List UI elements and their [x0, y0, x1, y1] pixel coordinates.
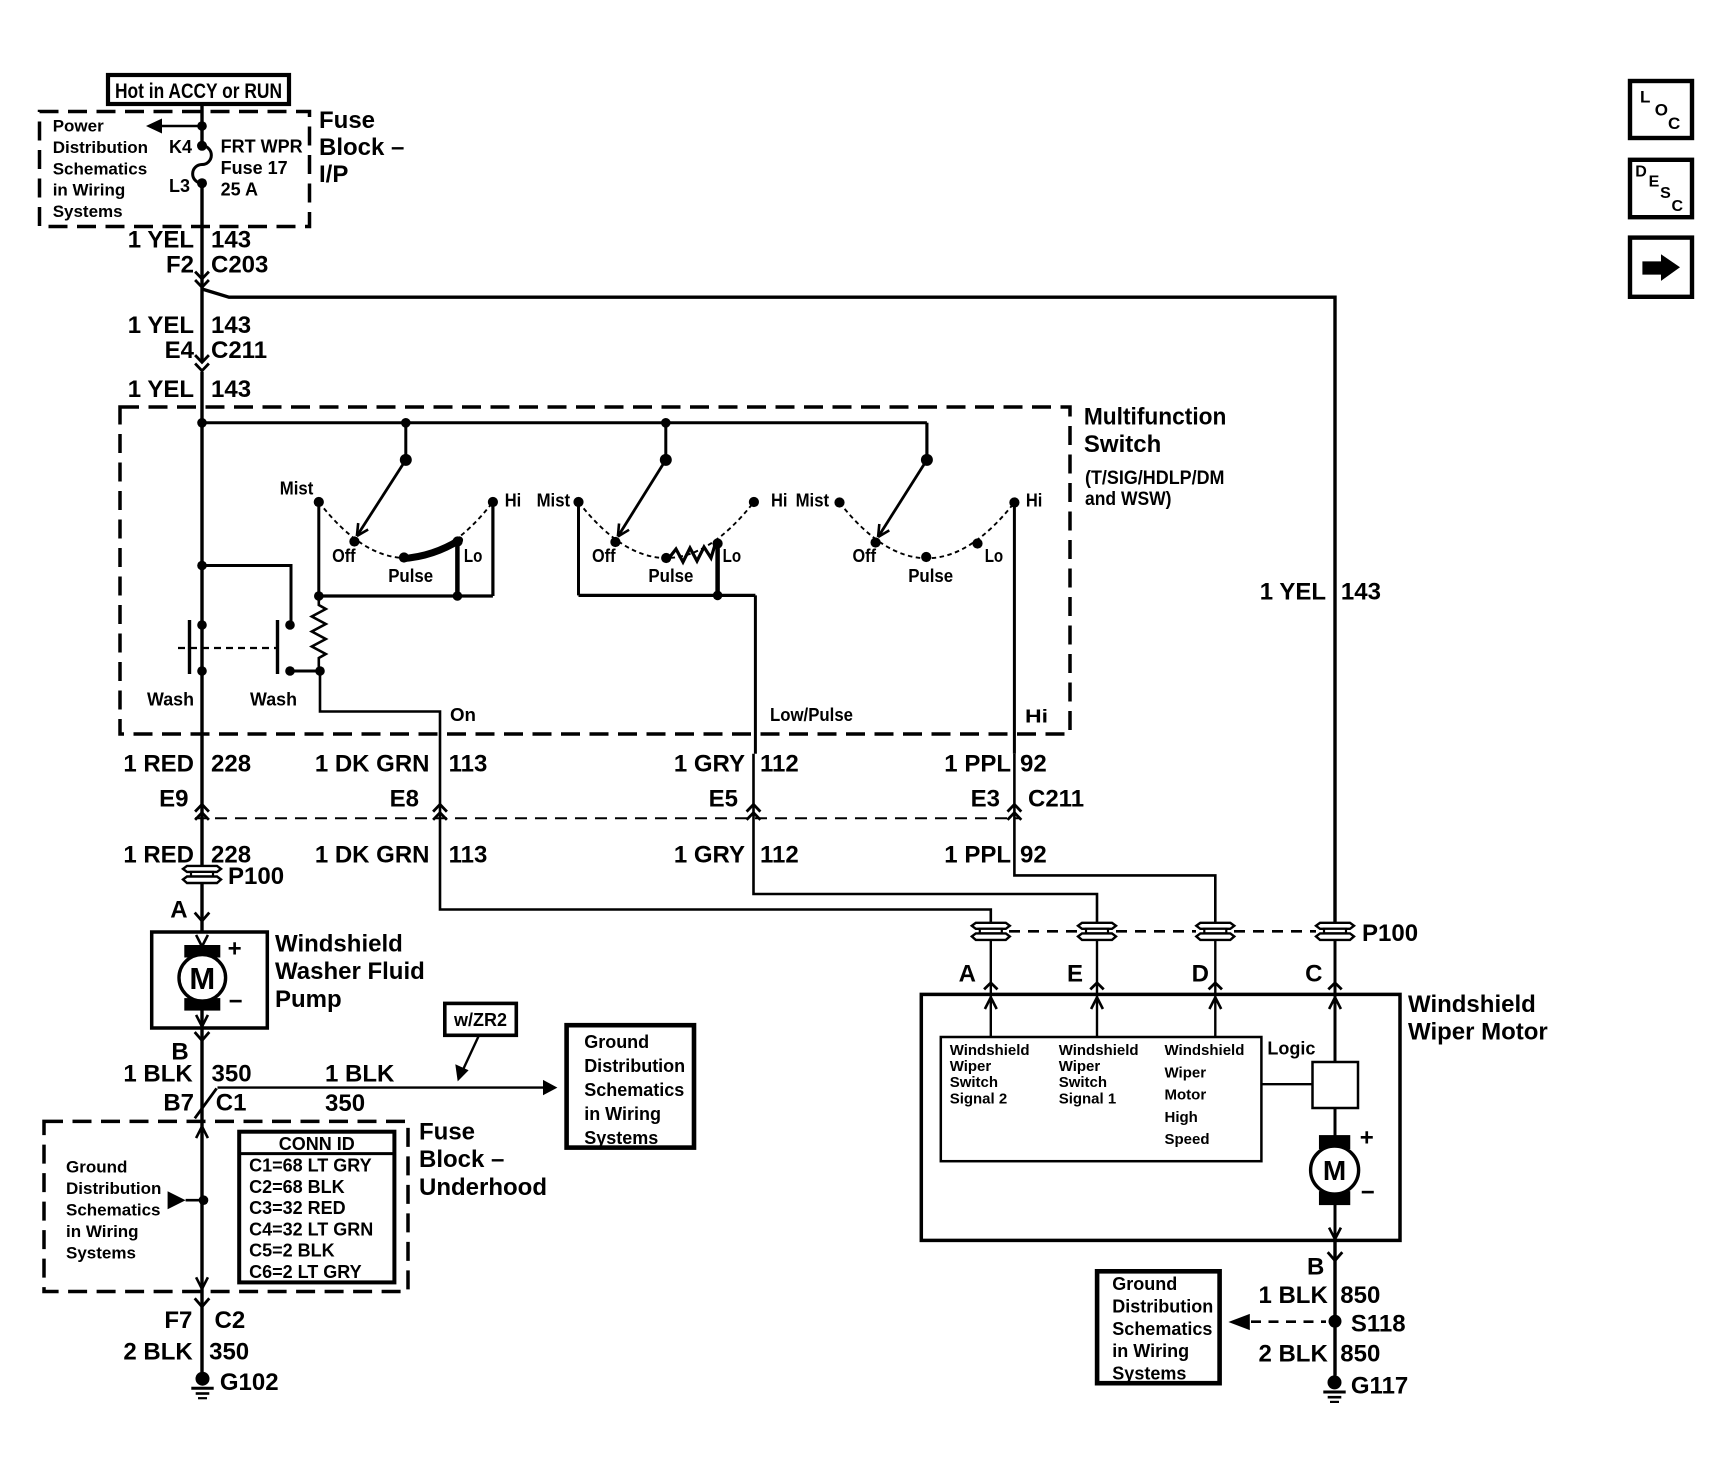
svg-text:E: E: [1067, 961, 1083, 988]
svg-text:350: 350: [325, 1090, 365, 1117]
svg-text:C211: C211: [1028, 786, 1084, 813]
svg-text:Power: Power: [53, 117, 104, 136]
icon box LOC: [1630, 81, 1692, 138]
svg-text:850: 850: [1340, 1282, 1380, 1309]
svg-text:P100: P100: [1362, 920, 1418, 947]
svg-text:−: −: [229, 988, 243, 1015]
wire: motor to box bottom with arrow: [1334, 1202, 1337, 1240]
svg-text:Switch: Switch: [1084, 431, 1161, 458]
svg-text:Switch: Switch: [1059, 1074, 1107, 1091]
svg-text:C: C: [1305, 961, 1322, 988]
connector chevron F7/C2: [195, 1298, 210, 1306]
svg-text:143: 143: [211, 376, 251, 403]
svg-text:in Wiring: in Wiring: [584, 1104, 661, 1124]
wash switch linkage dashed: [178, 647, 278, 649]
power label box: Hot in ACCY or RUN: [108, 75, 289, 104]
svg-text:Pulse: Pulse: [648, 566, 693, 586]
svg-text:1 BLK: 1 BLK: [123, 1060, 193, 1087]
svg-text:Ground: Ground: [584, 1032, 649, 1052]
svg-text:Logic: Logic: [1267, 1039, 1315, 1059]
wire: switch 1 common bus: [319, 594, 493, 597]
ground G102 symbol: [196, 1372, 210, 1386]
svg-text:113: 113: [449, 842, 488, 869]
svg-text:Systems: Systems: [66, 1244, 136, 1263]
svg-text:Fuse 17: Fuse 17: [221, 158, 288, 178]
svg-text:Distribution: Distribution: [1112, 1296, 1213, 1316]
svg-text:Schematics: Schematics: [53, 159, 148, 178]
svg-text:Washer Fluid: Washer Fluid: [275, 958, 425, 985]
svg-text:O: O: [1655, 101, 1668, 120]
svg-text:Lo: Lo: [464, 546, 483, 566]
wire: C into motor box: [1334, 940, 1337, 994]
svg-text:Lo: Lo: [723, 546, 742, 566]
wire: D into motor box: [1214, 940, 1216, 994]
connector P100 row dashed links: [1009, 930, 1078, 933]
svg-text:E: E: [1649, 173, 1660, 190]
svg-text:B: B: [1307, 1254, 1324, 1281]
svg-text:Systems: Systems: [584, 1128, 658, 1148]
windshield washer fluid pump box: [152, 932, 268, 1028]
svg-text:143: 143: [211, 312, 251, 339]
svg-text:E3: E3: [971, 786, 1000, 813]
svg-text:(T/SIG/HDLP/DM: (T/SIG/HDLP/DM: [1085, 468, 1225, 489]
svg-text:+: +: [1360, 1124, 1374, 1151]
svg-text:92: 92: [1020, 842, 1047, 869]
wire: Mist leg switch 2: [577, 502, 580, 595]
svg-text:and WSW): and WSW): [1085, 489, 1172, 510]
svg-text:Block –: Block –: [419, 1146, 504, 1173]
svg-text:C211: C211: [211, 337, 267, 364]
wiper motor symbol: [1319, 1135, 1350, 1149]
svg-text:Mist: Mist: [796, 491, 830, 511]
arrow bottom inside underhood box: [196, 1277, 202, 1289]
svg-text:Fuse: Fuse: [419, 1119, 475, 1146]
svg-text:Wash: Wash: [147, 690, 194, 710]
resistor (pulse delay): [312, 596, 326, 671]
svg-text:1 RED: 1 RED: [123, 842, 194, 869]
connector chevron B pump: [195, 1032, 210, 1040]
multifunction switch dashed box: [120, 407, 1070, 734]
svg-text:S118: S118: [1351, 1310, 1406, 1337]
svg-text:Windshield: Windshield: [1408, 991, 1536, 1018]
svg-text:B7: B7: [163, 1090, 194, 1117]
svg-text:Distribution: Distribution: [53, 138, 148, 157]
svg-text:Signal 2: Signal 2: [950, 1090, 1008, 1107]
svg-text:Hi: Hi: [771, 491, 788, 511]
svg-text:1 YEL: 1 YEL: [1260, 579, 1326, 606]
thick pulse arc switch 1: [403, 540, 460, 559]
connector chevron pin C: [1328, 983, 1341, 990]
svg-text:Windshield: Windshield: [1165, 1042, 1245, 1059]
connector chevron pin A: [984, 983, 997, 990]
svg-text:Off: Off: [853, 546, 877, 566]
svg-text:E8: E8: [390, 786, 419, 813]
svg-text:E9: E9: [159, 786, 188, 813]
wire+arrow C inside: [1334, 996, 1337, 1062]
svg-text:High: High: [1165, 1109, 1198, 1126]
svg-text:S: S: [1660, 185, 1671, 202]
svg-text:1 BLK: 1 BLK: [1258, 1282, 1328, 1309]
svg-text:Fuse: Fuse: [319, 107, 375, 134]
wire+arrow D inside: [1214, 996, 1216, 1037]
fuse block I/P dashed box: [40, 112, 310, 227]
wire: Mist leg switch 1: [317, 502, 320, 596]
svg-text:Systems: Systems: [1112, 1364, 1186, 1384]
svg-text:C: C: [1668, 114, 1680, 133]
wire: branch to right main bus: [202, 289, 1335, 923]
svg-text:Wash: Wash: [250, 690, 297, 710]
svg-text:1 YEL: 1 YEL: [128, 312, 194, 339]
connector C203 chevrons: [195, 272, 209, 279]
connector C1 slash: [195, 1088, 217, 1118]
dashed arrow to S118: [1228, 1314, 1249, 1330]
wire: wash lower link to resistor: [290, 670, 320, 673]
svg-text:C1=68 LT GRY: C1=68 LT GRY: [249, 1156, 372, 1176]
conn id table: [239, 1132, 394, 1283]
svg-text:CONN ID: CONN ID: [279, 1134, 355, 1154]
wash switch contact bars: [188, 620, 191, 674]
svg-text:D: D: [1192, 961, 1209, 988]
connector chevron pin E: [1090, 983, 1103, 990]
wire+arrow E inside: [1096, 996, 1098, 1037]
svg-text:Mist: Mist: [280, 478, 314, 498]
svg-text:1 GRY: 1 GRY: [674, 842, 745, 869]
svg-text:L3: L3: [169, 176, 190, 196]
svg-text:Pump: Pump: [275, 986, 342, 1013]
washer pump motor symbol: [184, 945, 220, 958]
wire: wash upper link: [202, 566, 291, 626]
svg-text:Distribution: Distribution: [584, 1056, 685, 1076]
svg-text:Switch: Switch: [950, 1074, 998, 1091]
svg-text:C5=2 BLK: C5=2 BLK: [249, 1241, 335, 1261]
logic box: [1313, 1062, 1359, 1108]
svg-text:C203: C203: [211, 252, 268, 279]
svg-text:in Wiring: in Wiring: [66, 1222, 139, 1241]
icon box arrow: [1630, 238, 1692, 297]
svg-text:Block –: Block –: [319, 134, 404, 161]
svg-text:Off: Off: [332, 546, 356, 566]
connector C211 boundary dashed line: [195, 817, 1020, 819]
svg-text:D: D: [1635, 164, 1647, 181]
svg-text:Schematics: Schematics: [584, 1080, 684, 1100]
svg-text:1 GRY: 1 GRY: [674, 751, 745, 778]
wire: wiper ground lead: [1333, 1240, 1336, 1375]
svg-text:1 PPL: 1 PPL: [944, 842, 1011, 869]
svg-text:Hot in ACCY or RUN: Hot in ACCY or RUN: [115, 80, 282, 103]
svg-text:Windshield: Windshield: [275, 931, 403, 958]
svg-text:Speed: Speed: [1165, 1131, 1210, 1148]
wire: switch 2 common bus: [579, 594, 756, 597]
ground G117 symbol: [1328, 1375, 1342, 1389]
fuse FRT WPR Fuse 17 25A symbol: [197, 141, 207, 151]
wire: logic to motor: [1334, 1108, 1337, 1137]
svg-text:1 DK GRN: 1 DK GRN: [315, 751, 430, 778]
wire: Hi output (PPL): [1013, 503, 1016, 754]
svg-text:F7: F7: [164, 1307, 192, 1334]
connector E9 chevrons: [195, 804, 209, 811]
wire+arrow A inside: [990, 996, 992, 1037]
svg-text:113: 113: [449, 751, 488, 778]
svg-text:92: 92: [1020, 751, 1047, 778]
wire: main below C203 to C211: [200, 287, 203, 362]
wire: main feed from Hot box down to C203: [200, 104, 203, 146]
svg-text:Wiper: Wiper: [1165, 1064, 1207, 1081]
arrow from note to wire: [168, 1191, 186, 1209]
svg-text:Pulse: Pulse: [388, 566, 433, 586]
svg-text:143: 143: [1341, 579, 1381, 606]
wiper switch signals box: [941, 1037, 1262, 1161]
svg-text:P100: P100: [228, 863, 284, 890]
svg-text:Off: Off: [592, 546, 616, 566]
svg-text:+: +: [228, 936, 242, 963]
svg-text:C2: C2: [215, 1307, 246, 1334]
switch wiper 3 (Mist/Off/Pulse/Lo/Hi): [925, 423, 928, 460]
svg-text:1 YEL: 1 YEL: [128, 376, 194, 403]
wire: switch 3 stem from bus corner: [925, 423, 928, 460]
svg-text:Wiper: Wiper: [950, 1058, 992, 1075]
connector E8 chevrons: [433, 804, 447, 811]
svg-text:A: A: [959, 961, 976, 988]
connector E5 chevrons: [747, 804, 761, 811]
wire: Low/Pulse output (GRY): [754, 595, 757, 753]
svg-text:Wiper: Wiper: [1059, 1058, 1101, 1075]
svg-text:Windshield: Windshield: [950, 1042, 1030, 1059]
svg-text:Pulse: Pulse: [908, 566, 953, 586]
svg-text:G102: G102: [220, 1369, 279, 1396]
svg-text:2 BLK: 2 BLK: [1258, 1340, 1328, 1367]
svg-text:in Wiring: in Wiring: [53, 181, 126, 200]
svg-text:350: 350: [209, 1339, 249, 1366]
wire: Hi leg switch 1: [491, 502, 494, 596]
svg-text:w/ZR2: w/ZR2: [453, 1010, 507, 1030]
svg-text:Lo: Lo: [985, 546, 1004, 566]
svg-text:K4: K4: [169, 137, 192, 157]
svg-text:C1: C1: [216, 1090, 247, 1117]
svg-text:Windshield: Windshield: [1059, 1042, 1139, 1059]
svg-text:C: C: [1672, 198, 1684, 215]
zigzag resistor switch 2: [670, 544, 716, 563]
svg-text:Systems: Systems: [53, 202, 123, 221]
svg-text:L: L: [1640, 87, 1650, 106]
arrow into pump: [196, 935, 202, 947]
wire: E into motor box: [1096, 940, 1098, 994]
windshield wiper motor box: [921, 994, 1400, 1240]
wire: A into motor box: [990, 940, 992, 994]
wire: signals box to logic box: [1261, 1083, 1312, 1085]
svg-text:A: A: [170, 897, 187, 924]
svg-text:350: 350: [212, 1060, 252, 1087]
svg-text:Multifunction: Multifunction: [1084, 404, 1227, 431]
svg-text:Hi: Hi: [1026, 491, 1043, 511]
svg-text:Low/Pulse: Low/Pulse: [770, 705, 853, 725]
connector E3 chevrons: [1008, 804, 1022, 811]
svg-text:112: 112: [760, 751, 799, 778]
svg-text:Wiper Motor: Wiper Motor: [1408, 1019, 1548, 1046]
svg-text:C3=32 RED: C3=32 RED: [249, 1198, 346, 1218]
connector chevron B motor: [1328, 1252, 1343, 1260]
ground distribution schematics box (bottom right): [1097, 1271, 1220, 1383]
switch wiper 2 (Mist/Off/Pulse/Lo/Hi): [664, 423, 667, 460]
svg-text:−: −: [1361, 1179, 1375, 1206]
svg-text:C6=2 LT GRY: C6=2 LT GRY: [249, 1262, 362, 1282]
svg-text:Schematics: Schematics: [66, 1201, 161, 1220]
svg-text:G117: G117: [1351, 1373, 1408, 1400]
svg-text:M: M: [189, 961, 215, 996]
wire: Lo leg switch 2: [715, 544, 720, 596]
svg-text:1 PPL: 1 PPL: [944, 751, 1011, 778]
svg-text:25 A: 25 A: [221, 180, 258, 200]
svg-text:Motor: Motor: [1165, 1087, 1207, 1104]
wire: wash output (RED) main: [200, 671, 203, 866]
wash switch terminals: [197, 620, 207, 630]
wire: On output (DK GRN): [320, 671, 991, 923]
svg-text:1 BLK: 1 BLK: [325, 1060, 395, 1087]
svg-text:Underhood: Underhood: [419, 1174, 547, 1201]
svg-text:Signal 1: Signal 1: [1059, 1090, 1117, 1107]
switch wiper 1 (Mist/Off/Pulse/Lo/Hi): [404, 423, 407, 460]
svg-text:Schematics: Schematics: [1112, 1319, 1212, 1339]
svg-text:FRT WPR: FRT WPR: [221, 136, 303, 156]
connector chevron pin D: [1209, 983, 1222, 990]
svg-text:143: 143: [211, 227, 251, 254]
connector P100 grommet D: [1196, 923, 1234, 929]
svg-text:112: 112: [760, 842, 799, 869]
svg-text:M: M: [1323, 1155, 1346, 1186]
arrow into wire inside underhood box: [202, 1127, 208, 1139]
wire: Lo leg switch 1: [455, 542, 460, 597]
svg-text:I/P: I/P: [319, 161, 348, 188]
svg-text:C4=32 LT GRN: C4=32 LT GRN: [249, 1219, 373, 1239]
svg-text:Ground: Ground: [66, 1158, 127, 1177]
wire: main below C211 into switch box: [200, 372, 203, 423]
wire: 1 BLK 350 branch to ground distribution: [218, 1086, 545, 1088]
connector P100 grommet A: [972, 923, 1010, 929]
svg-text:850: 850: [1340, 1340, 1380, 1367]
wire: branch to power distribution with arrow: [161, 125, 202, 128]
wire: pump lead: [200, 883, 203, 932]
svg-text:E4: E4: [165, 337, 195, 364]
svg-text:F2: F2: [166, 252, 194, 279]
wire: switch supply bus: [202, 421, 927, 424]
svg-text:1 DK GRN: 1 DK GRN: [315, 842, 430, 869]
svg-text:E5: E5: [709, 786, 738, 813]
icon box DESC: [1630, 160, 1692, 217]
connector P100 grommet C: [1316, 923, 1354, 929]
svg-text:Distribution: Distribution: [66, 1179, 161, 1198]
svg-text:2 BLK: 2 BLK: [123, 1339, 193, 1366]
fuse block underhood dashed box: [44, 1121, 408, 1291]
svg-text:C2=68 BLK: C2=68 BLK: [249, 1177, 345, 1197]
arrow out of pump: [200, 1010, 203, 1029]
svg-text:On: On: [450, 705, 476, 725]
connector chevron A pump: [195, 913, 210, 921]
svg-text:228: 228: [211, 751, 251, 778]
connector P100 grommet E: [1078, 923, 1116, 929]
wire: main through box to wash: [200, 423, 203, 671]
arrow from w/ZR2 to wire: [461, 1036, 479, 1074]
svg-text:Hi: Hi: [1025, 707, 1048, 727]
svg-text:Mist: Mist: [537, 491, 571, 511]
splice S118: [1329, 1315, 1342, 1328]
option box w/ZR2: [445, 1003, 517, 1035]
svg-text:1 YEL: 1 YEL: [128, 227, 194, 254]
connector P100 grommet (washer): [183, 866, 221, 872]
wire: pump ground lead: [200, 1028, 203, 1372]
ground distribution schematics box (right of pump): [567, 1025, 694, 1147]
svg-text:Ground: Ground: [1112, 1274, 1177, 1294]
svg-text:Hi: Hi: [505, 491, 522, 511]
connector C211 chevrons: [195, 355, 209, 362]
svg-text:in Wiring: in Wiring: [1112, 1341, 1189, 1361]
svg-text:1 RED: 1 RED: [123, 751, 194, 778]
